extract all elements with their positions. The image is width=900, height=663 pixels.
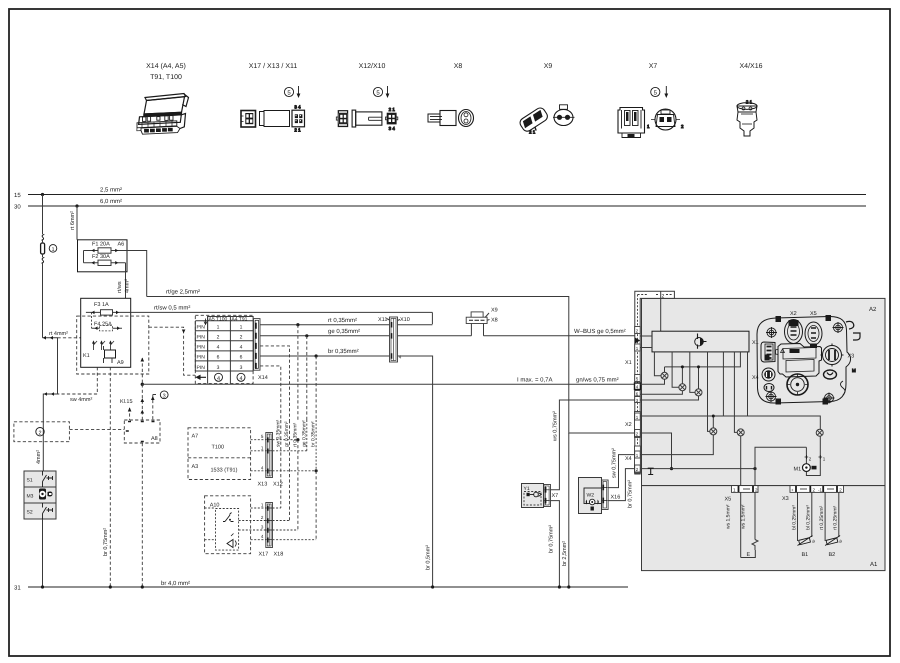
junction symbol 4: [710, 428, 717, 435]
dashed output br 0,75mm2 to bus 31: [109, 367, 111, 587]
wire gn/ws 0,75mm2 (I max 0,7A): [142, 383, 634, 385]
svg-text:2: 2: [662, 293, 665, 299]
internal rail from ECU: [665, 352, 741, 372]
svg-text:2 1: 2 1: [529, 130, 536, 135]
svg-text:4mm²: 4mm²: [36, 450, 42, 464]
ECU drop to junction 5 (glow feed): [734, 352, 737, 433]
svg-text:W2: W2: [587, 493, 595, 499]
svg-text:X11: X11: [378, 317, 387, 323]
svg-text:bl 0,25mm²: bl 0,25mm²: [806, 505, 812, 530]
svg-text:T91, T100: T91, T100: [150, 74, 182, 81]
svg-text:3: 3: [217, 365, 220, 371]
junction symbol 6 (M1 feed): [816, 429, 823, 436]
svg-text:br 0,35mm²: br 0,35mm²: [328, 348, 359, 355]
svg-text:ws 1,5mm²: ws 1,5mm²: [726, 504, 732, 529]
PIN rows: [197, 325, 243, 371]
svg-text:K1: K1: [83, 353, 90, 359]
dashed X12 pin1 to ge drop: [273, 420, 307, 451]
svg-text:5: 5: [261, 434, 264, 439]
connector X12 pictorial (small plug): [336, 111, 347, 127]
wire rt 4mm2 jog: [43, 338, 58, 471]
svg-text:X8: X8: [454, 63, 463, 70]
junction symbol 3: [695, 389, 702, 396]
connector X9 pictorial (two angled plugs): [518, 105, 574, 136]
svg-text:M1: M1: [794, 467, 802, 473]
switch S2 element: [43, 503, 54, 519]
pictorial blower circle: [787, 374, 808, 395]
svg-text:4: 4: [217, 376, 220, 382]
svg-text:3: 3: [163, 393, 166, 399]
svg-text:rt/sw 0,5 mm²: rt/sw 0,5 mm²: [154, 305, 190, 312]
svg-text:br 0,5mm²: br 0,5mm²: [426, 545, 432, 570]
switch element in A10: [223, 513, 234, 522]
svg-text:2: 2: [38, 430, 41, 436]
fuse F1 element: [84, 248, 123, 253]
dashed pins A7/A3 to X13: [251, 440, 266, 471]
svg-text:X8: X8: [491, 317, 498, 323]
remote control box with note 2 (dashed): [14, 422, 70, 442]
node br to timer drop: [315, 354, 318, 357]
pictorial screws: [766, 322, 844, 404]
ECU drop to junction 1: [654, 352, 661, 376]
connector X17/X18 strip: [266, 503, 273, 548]
dashed link note2 box to A8: [69, 429, 124, 431]
svg-text:S2: S2: [27, 510, 33, 516]
wire sw 0,75mm2 W2 to X4 pin1: [608, 455, 635, 488]
junction1 to X1 pin5: [640, 379, 664, 384]
connector break symbols around R: [42, 234, 45, 263]
X1 pin 3: [635, 397, 641, 403]
wire Y1 ground br 0,75mm2: [551, 501, 560, 587]
svg-text:X4: X4: [625, 456, 632, 462]
svg-text:4mm²: 4mm²: [125, 279, 131, 293]
node M1/E ground: [753, 467, 756, 470]
relay K1 contacts: [92, 340, 114, 350]
svg-text:M3: M3: [27, 494, 34, 500]
svg-text:X7: X7: [552, 493, 559, 499]
dashed drop ge to X12 pin1: [306, 336, 308, 420]
dashed unit box around K1/F4/A9: [77, 316, 149, 374]
svg-text:X3: X3: [782, 496, 789, 502]
svg-text:I max. = 0,7A: I max. = 0,7A: [517, 377, 553, 384]
svg-text:3: 3: [240, 365, 243, 371]
junction3 to X1 pin3 (Y1 feed): [640, 396, 698, 400]
pictorial connector X3 (round): [821, 344, 844, 367]
svg-text:5: 5: [654, 90, 658, 97]
wire bus 30: [28, 205, 866, 207]
connector X4 strip: [635, 446, 641, 473]
wire feed rt 6mm2 from bus 30: [76, 206, 78, 240]
svg-text:3: 3: [261, 525, 264, 530]
svg-text:A5 T100: A5 T100: [209, 316, 228, 322]
svg-text:A9: A9: [117, 360, 124, 366]
connector X8 pictorial (flat plug + oval socket): [428, 110, 474, 127]
svg-text:ws 0,75mm²: ws 0,75mm²: [552, 411, 558, 442]
svg-text:X1: X1: [752, 340, 759, 346]
pictorial connector X5 (oval): [805, 322, 822, 348]
pictorial connector X2 (oval): [785, 320, 803, 344]
internal rt/ge X2pin2 to ground line: [640, 433, 671, 469]
svg-text:4: 4: [239, 376, 242, 382]
svg-text:B1: B1: [802, 552, 809, 558]
antenna unit W2 (grey): [579, 478, 602, 514]
X1 pin 4 (bold): [635, 383, 641, 390]
fuse F3 element: [86, 310, 131, 315]
dashed Kl.15 line down to A8: [141, 384, 143, 420]
fuse box A6 (F1/F2): [78, 240, 128, 272]
svg-text:E: E: [747, 552, 751, 558]
svg-text:br 0,75mm²: br 0,75mm²: [549, 525, 555, 553]
wire S box to bus 31: [42, 519, 44, 587]
svg-text:T100: T100: [212, 445, 225, 451]
svg-text:A6: A6: [118, 242, 125, 248]
svg-text:4: 4: [399, 354, 402, 359]
wire br 2,5mm2 down to bus 31: [568, 433, 570, 587]
svg-text:X5: X5: [810, 311, 817, 317]
dashed A10 pins to X17: [239, 508, 266, 540]
X1 pin 1: [635, 344, 641, 351]
dashed drops continuing to A10 connector: [281, 420, 316, 540]
internal: pin1 to ECU: [640, 347, 652, 349]
svg-text:br 4,0 mm²: br 4,0 mm²: [161, 580, 190, 587]
svg-text:1: 1: [217, 325, 220, 331]
svg-text:A2: A2: [869, 306, 877, 313]
svg-text:A4 T91: A4 T91: [231, 316, 247, 322]
connector X11/X10 strip: [390, 317, 398, 362]
svg-text:2: 2: [240, 335, 243, 341]
svg-text:A3: A3: [192, 464, 199, 470]
wire labels bl/rt 0,25mm2: [791, 505, 838, 530]
svg-text:X13: X13: [258, 482, 268, 488]
note circle 4 (A5 column): [215, 373, 223, 381]
svg-text:2 1: 2 1: [294, 128, 301, 133]
svg-text:PIN: PIN: [197, 335, 206, 341]
svg-text:F1 20A: F1 20A: [92, 242, 110, 248]
svg-text:rt/ws: rt/ws: [117, 281, 123, 293]
wire Y1 feed ws 0,75mm2 from X1 pin3: [551, 400, 635, 490]
dashed output to gn/ws junction: [141, 358, 143, 384]
temperature sensor B2 wires: [825, 492, 839, 541]
svg-text:2: 2: [681, 124, 684, 129]
node gn/ws start: [141, 383, 144, 386]
svg-text:A1: A1: [870, 561, 878, 568]
svg-text:4: 4: [261, 534, 264, 539]
connector column X1/X2/X4 shell with top notch: [635, 291, 675, 474]
wire from bus 15 down left branch: [42, 195, 44, 235]
wire bus 15: [28, 194, 866, 196]
X1 pin 6: [635, 391, 641, 397]
connector X14 pictorial: [137, 94, 189, 135]
internal ground line (X4 pin2): [640, 468, 755, 470]
svg-text:X5: X5: [725, 497, 732, 503]
svg-text:5: 5: [287, 90, 291, 97]
connector X4/X16 pictorial (cylindrical): [737, 100, 757, 137]
connector X10 pictorial (long sleeve with tongue): [352, 110, 382, 127]
svg-text:rt 6mm²: rt 6mm²: [70, 211, 76, 230]
fuel pump Y1 (grey): [522, 484, 544, 508]
junction6 down to M1 terminal 1: [806, 436, 820, 475]
Y1 valve symbol: [527, 493, 530, 496]
svg-text:PIN: PIN: [197, 365, 206, 371]
svg-text:6: 6: [240, 355, 243, 361]
svg-text:ws 1,5mm²: ws 1,5mm²: [741, 504, 747, 529]
wire F1 output to rt/ge: [123, 251, 147, 297]
dashed X18 pins to drops: [273, 508, 317, 540]
svg-text:rt/ge 2,5mm²: rt/ge 2,5mm²: [166, 289, 200, 296]
motor M3 element: [39, 489, 46, 500]
svg-text:-1: -1: [818, 488, 822, 493]
connector X7 strip: [544, 485, 551, 507]
svg-text:B2: B2: [829, 552, 836, 558]
dashed boundary inside connector column: [638, 294, 672, 296]
svg-text:X14 (A4, A5): X14 (A4, A5): [146, 62, 186, 70]
node ge to timer drop: [305, 334, 308, 337]
pictorial connector X1 (rect): [761, 342, 775, 362]
junction4 down to X4 pin1 line: [640, 435, 713, 455]
X2 pin 1: [635, 413, 641, 420]
tap down to junction 4: [712, 416, 714, 428]
svg-text:3 4: 3 4: [294, 104, 301, 109]
svg-text:A10: A10: [210, 503, 220, 509]
control unit box A8 (dashed): [124, 420, 160, 443]
svg-text:bl 0,25mm²: bl 0,25mm²: [791, 505, 797, 530]
dashed drop br to X12 pin4: [315, 356, 317, 420]
junction rt/sw with rt wire: [431, 312, 433, 324]
wire bus 31 (br 4,0 mm2): [28, 586, 628, 588]
dashed X12 pin5 to rt drop: [273, 439, 298, 441]
internal link F3 to F4: [91, 312, 93, 328]
sensor B2 element: [825, 536, 840, 546]
svg-text:F3 1A: F3 1A: [94, 302, 109, 308]
dashed drop rt to X12 pin5: [297, 325, 299, 420]
svg-text:1: 1: [261, 446, 264, 451]
svg-text:1: 1: [240, 325, 243, 331]
A10 inner dashed box: [216, 509, 239, 551]
connector X13/X12 strip: [266, 433, 273, 478]
internal wire notch to ECU top: [660, 291, 662, 331]
wire labels of timer drops: [275, 419, 316, 447]
wire M1 terminal2 to ground line, down through X5 pin2 to E: [755, 447, 806, 539]
timer unit box A7/A3 (dashed): [188, 428, 251, 480]
rail tap to junction 3: [698, 367, 700, 389]
internal ground symbol: [648, 468, 654, 474]
X1 pin 5: [635, 375, 641, 382]
svg-text:15: 15: [14, 192, 21, 199]
svg-text:sw 0,75mm²: sw 0,75mm²: [612, 448, 618, 478]
connector X3 strip: [790, 486, 844, 493]
svg-text:2 1: 2 1: [746, 100, 753, 105]
note circle 2: [36, 428, 44, 436]
svg-text:br 0,75mm²: br 0,75mm²: [627, 480, 633, 508]
internal line X2 pin1 distribution: [640, 416, 820, 429]
connector X2 strip: [635, 412, 641, 438]
wire rt/ge 2,5mm2 main power: [147, 297, 635, 434]
rail tap to junction 2: [681, 367, 683, 384]
svg-text:+: +: [791, 488, 794, 493]
svg-text:S1: S1: [27, 478, 33, 484]
connector X10 mate (square, pins, 2 1 / 3 4): [386, 107, 398, 131]
svg-text:A7: A7: [192, 434, 199, 440]
internal feed bus of fuse box: [83, 251, 85, 263]
sensor B1 element: [798, 536, 813, 546]
junction2 to X1 pin6: [640, 391, 682, 394]
svg-text:2 1: 2 1: [389, 107, 396, 112]
fuse F2 element: [84, 260, 126, 265]
svg-text:rt 0,35mm²: rt 0,35mm²: [328, 317, 357, 324]
svg-text:1: 1: [261, 503, 264, 508]
svg-text:X10: X10: [400, 317, 410, 323]
dashed output to sw corner: [58, 367, 98, 394]
node on bus 15 at x=42.5: [41, 193, 44, 196]
X2 pin 2: [635, 430, 641, 437]
svg-text:br 0,75mm²: br 0,75mm²: [103, 528, 109, 556]
temperature sensor B1 wires: [798, 492, 812, 541]
dashed stub 3 into A8 with note 3: [153, 395, 158, 421]
motor M1: [803, 464, 811, 472]
dashed wire X14 pin4 to timers: [260, 346, 290, 420]
junction symbol 5: [737, 429, 744, 436]
ECU drop to junction 2: [672, 352, 679, 387]
ECU box: [652, 331, 749, 352]
svg-text:rt 0,25mm²: rt 0,25mm²: [819, 505, 825, 530]
remote receiver unit A10 (dashed): [205, 496, 251, 554]
pictorial right details: [776, 316, 860, 405]
svg-text:2: 2: [261, 515, 264, 520]
note circle 5 with arrow (X12 group): [373, 86, 389, 98]
svg-text:X16: X16: [611, 495, 621, 501]
connector X14 strip: [254, 319, 261, 371]
X4 pin 1: [635, 451, 641, 458]
dashed X12 pin4 to br drop: [273, 420, 317, 471]
svg-text:br 2,5mm²: br 2,5mm²: [562, 541, 568, 566]
dashed A8 output down to bus 31: [141, 443, 143, 587]
svg-text:W–BUS ge 0,5mm²: W–BUS ge 0,5mm²: [574, 328, 626, 335]
svg-text:2,5 mm²: 2,5 mm²: [100, 187, 122, 194]
node on bus 30 at x=77: [75, 204, 78, 207]
buzzer element in A10: [227, 540, 233, 548]
pictorial triangle mark: [781, 349, 785, 353]
svg-text:X2: X2: [625, 422, 632, 428]
heater base unit A1 (grey box): [642, 486, 886, 571]
svg-text:X7: X7: [649, 63, 658, 70]
svg-text:PIN: PIN: [197, 325, 206, 331]
svg-text:X12: X12: [273, 482, 283, 488]
wire rt 0,35mm2 (X14 pin1): [260, 324, 432, 326]
svg-text:4: 4: [261, 466, 264, 471]
relay/fuse unit box K1 (solid): [81, 298, 131, 367]
note circle 4 (A4 column): [237, 373, 245, 381]
svg-text:X4: X4: [752, 375, 759, 381]
svg-text:sw 4mm²: sw 4mm²: [70, 397, 92, 403]
heater pictorial outline: [757, 316, 851, 403]
svg-text:X18: X18: [274, 552, 284, 558]
svg-text:ge 0,35mm²: ge 0,35mm²: [328, 328, 360, 335]
ECU drop to junction 3: [690, 352, 695, 393]
glow plug E wires ws 1,5mm2: [741, 540, 758, 558]
connector X17 pictorial (socket with 2x2 grid): [241, 111, 256, 128]
connector X16 strip: [602, 480, 608, 510]
PIN table grid: [195, 317, 253, 384]
svg-text:X14: X14: [258, 375, 268, 381]
svg-text:PIN: PIN: [197, 355, 206, 361]
ECU drop to junction 4: [708, 352, 710, 432]
heater unit A2 (grey box): [642, 298, 886, 485]
svg-text:gn/ws 0,75 mm²: gn/ws 0,75 mm²: [576, 377, 619, 384]
connector X8/X9 inline pair: [466, 312, 487, 336]
X4 pin 2: [635, 465, 641, 472]
connector X14 (A4, A5) label: [146, 62, 186, 81]
wire F2 output down rt/ws 4mm2: [86, 263, 126, 313]
fuse F4 element (dashed optional): [92, 326, 123, 331]
svg-text:X1: X1: [625, 360, 632, 366]
note circle 5 with arrow (X17 group): [284, 86, 300, 98]
pictorial connector X4 (small round): [762, 368, 775, 381]
dashed link K1 to X14 table feed: [149, 327, 195, 375]
connector X11 pictorial (square, 4 pins): [292, 104, 305, 132]
relay K1 coil: [105, 350, 116, 358]
internal: W-BUS pin2 to ECU: [640, 335, 652, 337]
svg-text:6: 6: [217, 355, 220, 361]
down arrow marker in table: [204, 319, 207, 325]
PIN table (dashed frame): [195, 315, 253, 383]
svg-text:X9: X9: [491, 307, 498, 313]
note circle 3: [160, 391, 168, 399]
pictorial center block (heat exchanger): [776, 344, 822, 378]
wire rt/sw 0,5mm2 from F3: [131, 311, 433, 313]
svg-text:Kl.15: Kl.15: [120, 399, 133, 405]
svg-text:PIN: PIN: [197, 345, 206, 351]
note circle 1: [49, 245, 57, 253]
junction5 down through X5 pin1 to E: [740, 436, 742, 558]
svg-text:1533 (T91): 1533 (T91): [211, 468, 238, 474]
switch unit box S1/M3/S2: [24, 471, 56, 519]
svg-text:4: 4: [217, 345, 220, 351]
svg-text:5: 5: [376, 90, 380, 97]
svg-text:4: 4: [240, 345, 243, 351]
dashed stub 1 into A8: [129, 408, 131, 420]
node br at bus 31: [431, 585, 434, 588]
connector X13 pictorial (sleeve): [260, 111, 290, 127]
burner/flame symbol in ECU: [695, 334, 707, 349]
junction symbol 2: [679, 384, 686, 391]
svg-text:rt 0,35mm²: rt 0,35mm²: [292, 422, 298, 447]
connector X7 pictorial (housing + round 2-pin): [618, 108, 684, 138]
X1 pin 2 (W-BUS): [635, 327, 641, 334]
table bottom row arrow: [197, 376, 207, 380]
svg-text:31: 31: [14, 585, 21, 592]
dashed control line to relay coil K1: [58, 338, 107, 350]
W2 antenna symbol: [586, 500, 599, 505]
svg-text:X4/X16: X4/X16: [740, 62, 763, 70]
svg-text:1: 1: [647, 124, 650, 129]
M1 terminal marks: [805, 455, 809, 459]
node rt to timer drop: [296, 323, 299, 326]
svg-text:M: M: [852, 368, 856, 373]
note circle 5 with arrow (X7): [651, 86, 669, 98]
switch S1 element: [43, 471, 54, 487]
svg-text:rt 0,25mm²: rt 0,25mm²: [833, 505, 839, 530]
pictorial small oval X4 lower: [764, 384, 774, 392]
dashed wire X14 pin3 to timers: [260, 366, 281, 420]
A8 pin marks: [126, 422, 155, 442]
svg-text:rt 4mm²: rt 4mm²: [49, 331, 68, 337]
svg-text:X3: X3: [848, 354, 855, 360]
svg-text:30: 30: [14, 204, 21, 211]
wire M1 terminal2: [805, 447, 807, 464]
svg-text:A8: A8: [151, 436, 158, 442]
svg-text:6,0 mm²: 6,0 mm²: [100, 198, 122, 205]
resistor element (thermo fuse): [41, 243, 45, 254]
